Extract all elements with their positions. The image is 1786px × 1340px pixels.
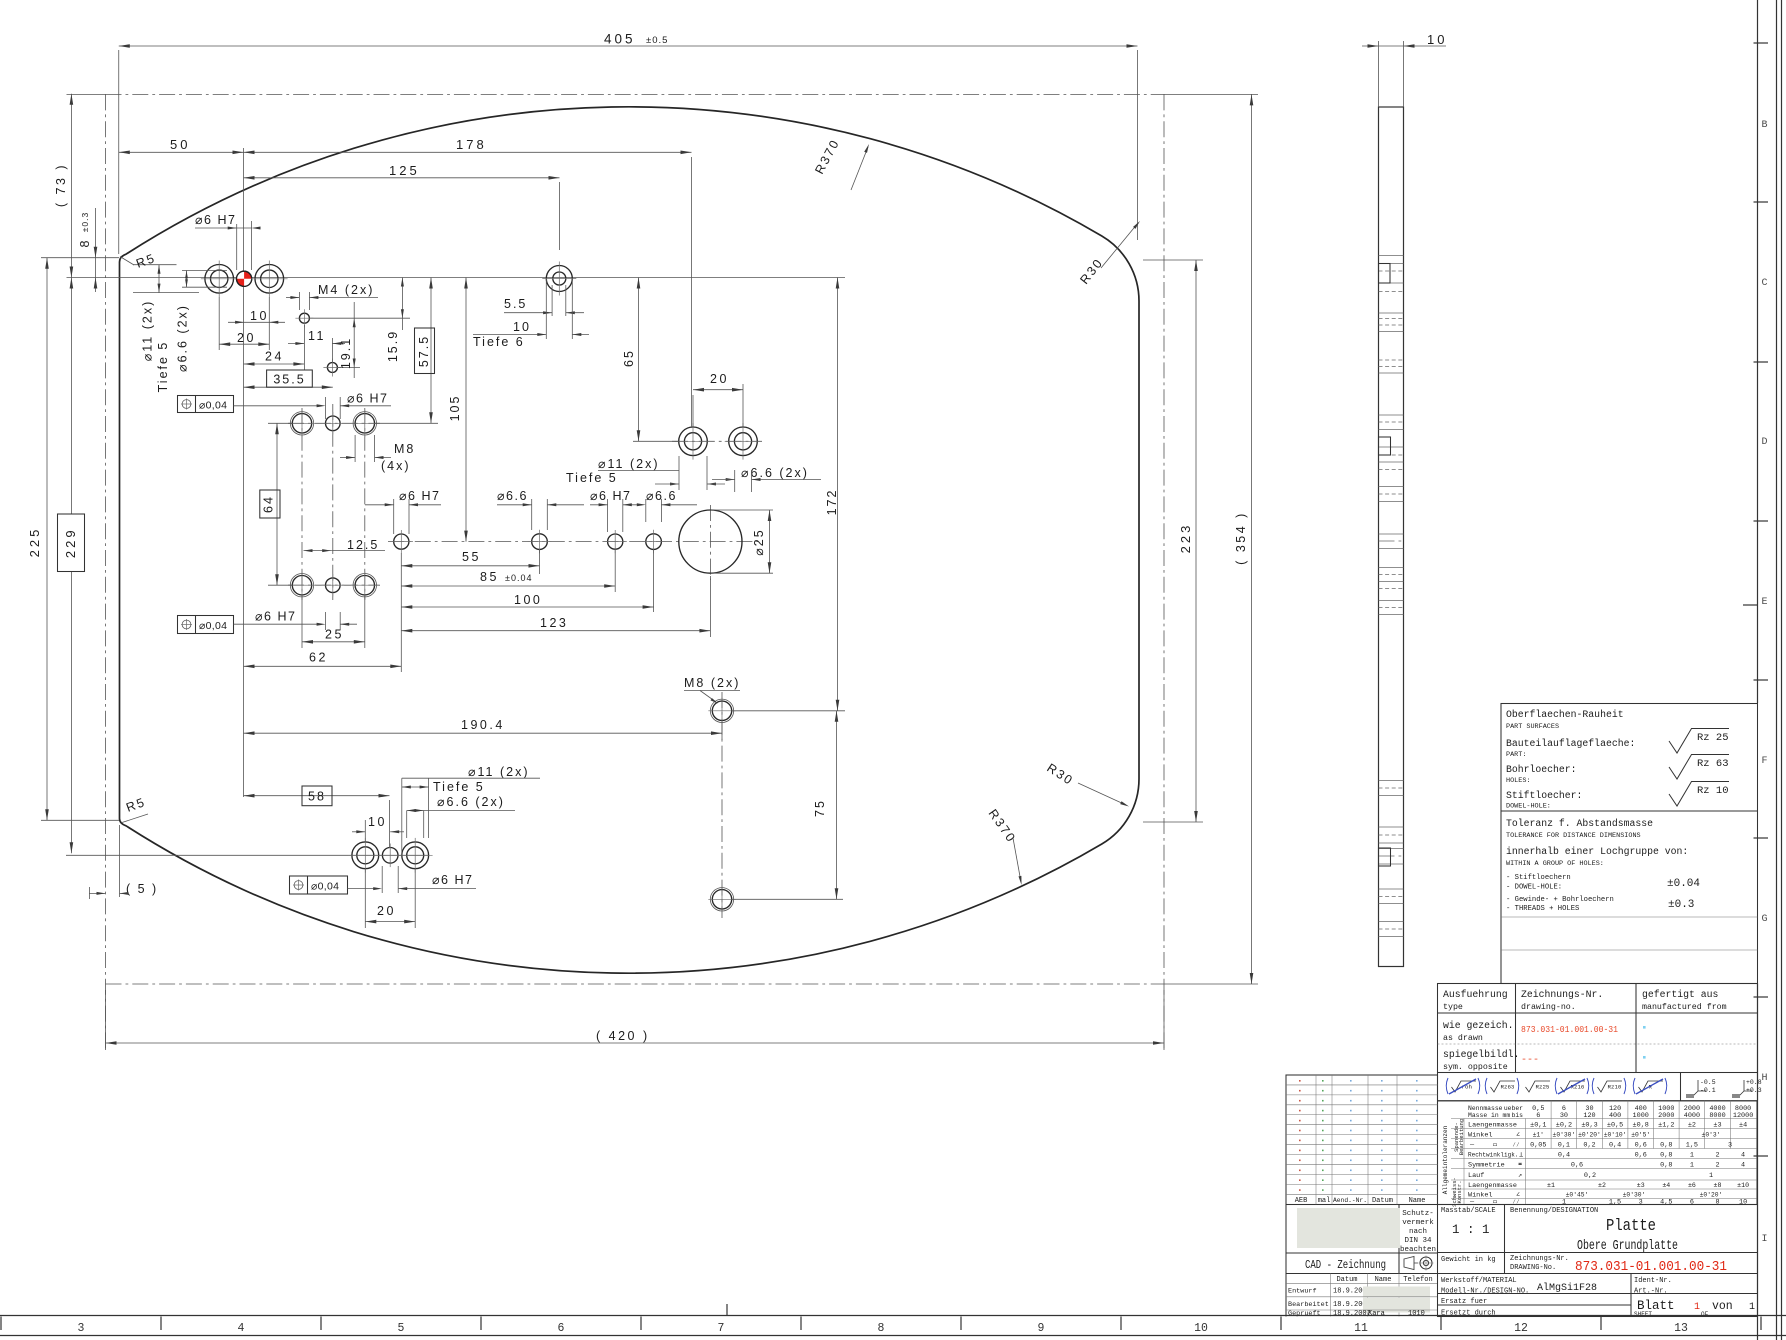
svg-text:1010: 1010	[1408, 1310, 1425, 1318]
datum vertical extension line x=243.5	[243, 148, 245, 797]
svg-text:±2: ±2	[1688, 1122, 1696, 1130]
svg-text:⌀11 (2x): ⌀11 (2x)	[141, 300, 155, 362]
svg-text:Datum: Datum	[1336, 1276, 1357, 1284]
svg-text:6: 6	[1536, 1112, 1540, 1120]
svg-text:Tiefe 5: Tiefe 5	[433, 780, 485, 794]
svg-text:0,8: 0,8	[1660, 1152, 1672, 1160]
dim 25 M8 group	[301, 596, 303, 648]
svg-text:30: 30	[1560, 1112, 1568, 1120]
svg-text:±8: ±8	[1714, 1182, 1722, 1189]
svg-text:M8: M8	[394, 442, 415, 456]
svg-text:11: 11	[1354, 1322, 1368, 1335]
svg-text:0,6: 0,6	[1635, 1142, 1647, 1150]
svg-text:1: 1	[1709, 1172, 1713, 1180]
svg-text:DOWEL-HOLE:: DOWEL-HOLE:	[1506, 803, 1551, 811]
svg-text:190.4: 190.4	[461, 718, 505, 732]
svg-text:±10: ±10	[1737, 1182, 1749, 1189]
svg-text:Rz 10: Rz 10	[1697, 785, 1729, 797]
svg-text:Rz16: Rz16	[1571, 1084, 1585, 1091]
legend symbol Rz16	[1561, 1081, 1586, 1092]
svg-text:- Stiftloechern: - Stiftloechern	[1506, 874, 1571, 882]
dim 225 left height	[41, 819, 119, 821]
svg-text:⌀25: ⌀25	[752, 528, 766, 555]
dim 125	[559, 182, 561, 250]
svg-text:bis: bis	[1511, 1112, 1523, 1119]
svg-text:223: 223	[1178, 523, 1193, 554]
dim 229 boxed	[70, 278, 72, 515]
svg-text:AEB: AEB	[1295, 1197, 1308, 1205]
svg-text:19.1: 19.1	[339, 337, 353, 369]
svg-text:C: C	[1761, 278, 1767, 289]
svg-text:±4: ±4	[1662, 1182, 1670, 1189]
dim 64 boxed rotated	[268, 422, 293, 424]
svg-text:⌀6 H7: ⌀6 H7	[399, 489, 440, 503]
svg-text:7: 7	[718, 1322, 725, 1335]
svg-text:HOLES:: HOLES:	[1506, 777, 1530, 785]
svg-text:4,5: 4,5	[1660, 1199, 1672, 1207]
dim 190.4	[721, 722, 723, 740]
svg-text:⌀0,04: ⌀0,04	[199, 400, 227, 412]
svg-text:Art.-Nr.: Art.-Nr.	[1634, 1288, 1668, 1296]
svg-text:nach: nach	[1409, 1228, 1427, 1236]
svg-text:Ausfuehrung: Ausfuehrung	[1443, 989, 1508, 1000]
svg-text:13: 13	[1674, 1322, 1688, 1335]
dim 24	[303, 325, 305, 370]
svg-text:±0,1: ±0,1	[1530, 1122, 1546, 1130]
svg-text:10: 10	[250, 309, 269, 323]
svg-text:Gewicht in kg: Gewicht in kg	[1441, 1256, 1496, 1264]
svg-text:400: 400	[1609, 1112, 1621, 1120]
svg-text:Modell-Nr./DESIGN-NO.: Modell-Nr./DESIGN-NO.	[1441, 1288, 1529, 1296]
tapped hole M4 first	[299, 313, 309, 323]
svg-text:18.9.2007: 18.9.2007	[1333, 1310, 1371, 1318]
svg-text:Rz25: Rz25	[1536, 1084, 1550, 1091]
legend symbol R	[1639, 1081, 1664, 1092]
svg-text:873.031-01.001.00-31: 873.031-01.001.00-31	[1521, 1024, 1618, 1035]
title block Ausfuehrung table	[1438, 984, 1758, 1073]
legend symbol Rz63	[1491, 1081, 1516, 1092]
roughness symbol Rz 63	[1669, 755, 1729, 780]
svg-text:229: 229	[63, 527, 78, 558]
centerline M8 pair bottom dash-dot	[721, 692, 723, 918]
svg-text:⌀6 H7: ⌀6 H7	[255, 610, 296, 624]
callout D6H7 M8 group bottom leader	[234, 623, 318, 625]
dim 20 bottom	[364, 869, 366, 928]
svg-text:1: 1	[1690, 1152, 1694, 1160]
svg-text:Rz 25: Rz 25	[1697, 732, 1729, 744]
svg-text:DIN 34: DIN 34	[1404, 1237, 1432, 1245]
svg-text:±1: ±1	[1547, 1182, 1555, 1189]
mid row hole D6.6	[532, 534, 548, 550]
svg-text:65: 65	[622, 349, 636, 367]
svg-text:Stiftloecher:: Stiftloecher:	[1506, 790, 1582, 801]
svg-text:±3: ±3	[1713, 1122, 1721, 1130]
centerlines M8 group columns dash-dot	[301, 408, 303, 600]
svg-text:- Gewinde- + Bohrloechern: - Gewinde- + Bohrloechern	[1506, 896, 1614, 904]
svg-text:873.031-01.001.00-31: 873.031-01.001.00-31	[1575, 1260, 1727, 1275]
svg-text:I: I	[1761, 1234, 1767, 1245]
svg-text:±0'20': ±0'20'	[1578, 1132, 1601, 1139]
centerlines M8 group rows dash-dot	[288, 422, 380, 424]
svg-text:0,4: 0,4	[1609, 1142, 1621, 1150]
svg-text:∕∕: ∕∕	[1512, 1142, 1520, 1149]
svg-text:±0,5: ±0,5	[1607, 1122, 1623, 1130]
svg-text:12: 12	[1514, 1322, 1528, 1335]
svg-text:0,8: 0,8	[1660, 1142, 1672, 1150]
dim 20 top row	[218, 297, 220, 350]
dowel holes D6H7 in M8 group	[326, 416, 341, 431]
svg-text:Konstr.: Konstr.	[1456, 1180, 1463, 1203]
roughness symbol Rz 10	[1669, 782, 1729, 807]
bottom dowel hole D6H7	[382, 848, 398, 864]
svg-text:sym. opposite: sym. opposite	[1443, 1062, 1508, 1072]
svg-text:3: 3	[1639, 1199, 1643, 1207]
svg-text:±3: ±3	[1637, 1182, 1645, 1189]
svg-text:Name: Name	[1409, 1197, 1426, 1205]
callout D6H7 bottom dowel leader	[348, 888, 375, 890]
svg-text:85: 85	[480, 570, 499, 584]
svg-text:-0.1: -0.1	[1700, 1087, 1716, 1094]
svg-text:11: 11	[308, 329, 326, 343]
svg-text:±2: ±2	[1598, 1182, 1606, 1189]
svg-text:Bearbeitung: Bearbeitung	[1458, 1119, 1465, 1155]
counterbore hole top-left 2 D11/D6.6	[255, 265, 284, 294]
general tolerance table	[1438, 1101, 1758, 1205]
svg-text:innerhalb einer Lochgruppe von: innerhalb einer Lochgruppe von:	[1506, 846, 1688, 857]
svg-text:Obere Grundplatte: Obere Grundplatte	[1577, 1239, 1678, 1254]
svg-text:OF: OF	[1701, 1311, 1709, 1318]
side view strip thickness 10	[1379, 107, 1404, 967]
svg-text:Allgemeintoleranzen: Allgemeintoleranzen	[1442, 1125, 1449, 1194]
dim 58 boxed	[389, 800, 391, 848]
tapped hole M8 pair bottom	[712, 890, 731, 909]
svg-text:6: 6	[1690, 1199, 1694, 1207]
plate outline front view R370/R30/R5	[120, 107, 1140, 973]
svg-text:Ident-Nr.: Ident-Nr.	[1634, 1277, 1672, 1285]
svg-text:TOLERANCE FOR DISTANCE DIMENSI: TOLERANCE FOR DISTANCE DIMENSIONS	[1506, 832, 1641, 840]
dim (73)	[67, 93, 106, 95]
centerline counterbore pair 11 dash-dot	[672, 440, 762, 442]
tapped holes M8 4x group	[292, 414, 311, 433]
svg-text:Benennung/DESIGNATION: Benennung/DESIGNATION	[1510, 1207, 1598, 1215]
svg-text:2: 2	[1715, 1162, 1719, 1170]
svg-text:±0'20': ±0'20'	[1700, 1192, 1723, 1199]
svg-text:Toleranz f. Abstandsmasse: Toleranz f. Abstandsmasse	[1506, 818, 1653, 829]
svg-text:1 : 1: 1 : 1	[1452, 1223, 1490, 1237]
svg-text:gefertigt aus: gefertigt aus	[1642, 989, 1719, 1000]
svg-text:Bauteilauflageflaeche:: Bauteilauflageflaeche:	[1506, 738, 1635, 749]
svg-text:CAD - Zeichnung: CAD - Zeichnung	[1305, 1259, 1386, 1272]
svg-text:Ersatz fuer: Ersatz fuer	[1441, 1298, 1487, 1306]
svg-text:1: 1	[1749, 1302, 1755, 1313]
datum dowel hole D6H7 red	[237, 271, 252, 286]
svg-text:20: 20	[710, 372, 729, 386]
svg-text:1,5: 1,5	[1686, 1142, 1698, 1150]
frame position tolerance 2	[178, 616, 234, 634]
svg-text:6: 6	[558, 1322, 565, 1335]
svg-text:Ersetzt durch: Ersetzt durch	[1441, 1310, 1496, 1318]
dim 178	[691, 157, 693, 427]
svg-text:10: 10	[513, 320, 531, 334]
svg-text:3: 3	[78, 1322, 85, 1335]
svg-text:⌀0,04: ⌀0,04	[311, 881, 339, 893]
dim 15.9 rotated	[360, 317, 410, 319]
tapped hole M8 pair top	[712, 701, 731, 720]
svg-text:0,2: 0,2	[1584, 1172, 1596, 1180]
callout D6H7 M8 group top leader	[234, 405, 318, 407]
schutzvermerk cell	[1285, 1205, 1287, 1317]
svg-text:Platte: Platte	[1606, 1217, 1656, 1236]
roughness symbol Rz 25	[1669, 729, 1729, 754]
names and dates rows	[1330, 1274, 1332, 1317]
svg-text:25: 25	[325, 628, 344, 642]
svg-text:24: 24	[265, 350, 284, 364]
centerline bottom cb group	[66, 854, 429, 856]
svg-text:Laengenmasse: Laengenmasse	[1468, 1182, 1517, 1190]
dim 20 counterbore pair	[692, 395, 694, 427]
svg-text:10: 10	[1739, 1199, 1747, 1207]
svg-text:62: 62	[309, 651, 328, 665]
legend symbol roh	[1452, 1081, 1477, 1092]
dim 57.5 boxed rotated	[375, 422, 438, 424]
svg-text:⌀11 (2x): ⌀11 (2x)	[598, 457, 660, 471]
revision table with dots	[1286, 1075, 1438, 1205]
svg-text:±0,3: ±0,3	[1581, 1122, 1597, 1130]
svg-text:Zeichnungs-Nr.: Zeichnungs-Nr.	[1510, 1255, 1569, 1263]
svg-text:Symmetrie: Symmetrie	[1468, 1162, 1505, 1170]
svg-text:Zeichnungs-Nr.: Zeichnungs-Nr.	[1521, 989, 1603, 1000]
svg-text:⌀6 H7: ⌀6 H7	[590, 489, 631, 503]
svg-text:Rz63: Rz63	[1501, 1084, 1515, 1091]
dim (354) blank height	[1164, 93, 1258, 95]
svg-text:±1': ±1'	[1533, 1132, 1544, 1139]
svg-text:0,1: 0,1	[1558, 1142, 1570, 1150]
svg-text:8: 8	[1715, 1199, 1719, 1207]
svg-text:PART:: PART:	[1506, 751, 1526, 759]
side view section lines	[1379, 255, 1404, 257]
svg-text:120: 120	[1583, 1112, 1595, 1120]
sheet border bottom band	[0, 1315, 1786, 1317]
svg-text:±4: ±4	[1739, 1122, 1747, 1130]
svg-text:≖: ≖	[1518, 1161, 1522, 1169]
svg-text:±0.3: ±0.3	[80, 212, 90, 232]
svg-text:2: 2	[1715, 1152, 1719, 1160]
svg-text:15.9: 15.9	[386, 330, 400, 362]
dim (420) blank width	[105, 990, 107, 1050]
svg-text:1,5: 1,5	[1609, 1199, 1621, 1207]
svg-text:10: 10	[1194, 1322, 1208, 1335]
svg-text:B: B	[1761, 120, 1767, 131]
svg-text:⌀6.6 (2x): ⌀6.6 (2x)	[176, 304, 190, 372]
svg-text:PART SURFACES: PART SURFACES	[1506, 723, 1559, 731]
svg-text:∠: ∠	[1516, 1132, 1520, 1140]
svg-text:↗: ↗	[1518, 1172, 1522, 1180]
dim 35.5 boxed	[244, 386, 333, 388]
svg-text:±0'10': ±0'10'	[1604, 1132, 1627, 1139]
svg-text:Kara: Kara	[1368, 1310, 1385, 1318]
svg-text:0,6: 0,6	[1571, 1162, 1583, 1170]
svg-text:±0'45': ±0'45'	[1566, 1192, 1589, 1199]
dim 123	[709, 576, 711, 637]
svg-text:±1,2: ±1,2	[1658, 1122, 1674, 1130]
svg-text:E: E	[1761, 597, 1767, 608]
svg-text:±0.3: ±0.3	[1668, 899, 1694, 911]
counterbore pair D11/D6.6 left	[679, 427, 708, 456]
svg-text:±0.5: ±0.5	[646, 35, 668, 46]
dim 19.1 rotated	[309, 317, 360, 319]
svg-text:von: von	[1712, 1300, 1733, 1313]
svg-text:type: type	[1443, 1003, 1463, 1012]
svg-text:Rechtwinkligk.: Rechtwinkligk.	[1468, 1152, 1518, 1159]
dim 10 top row	[268, 297, 270, 350]
svg-text:drawing-no.: drawing-no.	[1521, 1002, 1576, 1012]
svg-text:Lauf: Lauf	[1468, 1172, 1484, 1180]
sheet centering mark bottom	[726, 1304, 728, 1316]
svg-text:2000: 2000	[1658, 1112, 1674, 1120]
mid row hole D6H7 left	[394, 534, 409, 549]
svg-text:AlMgSi1F28: AlMgSi1F28	[1537, 1282, 1597, 1294]
svg-text:⊥: ⊥	[1519, 1152, 1523, 1160]
svg-text:▭: ▭	[1493, 1199, 1497, 1207]
svg-text:Telefon: Telefon	[1403, 1276, 1432, 1284]
svg-text:Masse in mm: Masse in mm	[1468, 1112, 1510, 1119]
svg-text:±0'30': ±0'30'	[1623, 1192, 1646, 1199]
svg-text:DRAWING-No.: DRAWING-No.	[1510, 1264, 1556, 1272]
svg-text:-0.5: -0.5	[1700, 1079, 1716, 1086]
svg-text:5.5: 5.5	[504, 297, 527, 311]
svg-text:10: 10	[368, 815, 387, 829]
svg-text:( 354 ): ( 354 )	[1234, 511, 1248, 565]
sheet border right band	[1757, 0, 1759, 703]
svg-text:Schutz-: Schutz-	[1402, 1210, 1434, 1218]
svg-text:---: ---	[1521, 1055, 1539, 1066]
svg-text:1: 1	[1694, 1302, 1700, 1313]
dim 50	[119, 151, 244, 153]
dim 85 +-0.04	[614, 549, 616, 592]
svg-text:8000: 8000	[1709, 1112, 1725, 1120]
svg-text:405: 405	[604, 32, 636, 47]
svg-text:±0,2: ±0,2	[1556, 1122, 1572, 1130]
svg-text:Tiefe 6: Tiefe 6	[473, 335, 525, 349]
svg-text:100: 100	[514, 593, 542, 607]
legend symbol Rz10	[1598, 1081, 1623, 1092]
mid row hole D6.6 right	[646, 534, 662, 550]
raw blank outline dash-dot box 420x354	[106, 93, 1165, 95]
svg-text:Rz 63: Rz 63	[1697, 758, 1729, 770]
svg-text:D: D	[1761, 437, 1767, 448]
svg-text:0,05: 0,05	[1530, 1142, 1546, 1150]
svg-text:⌀6 H7: ⌀6 H7	[195, 213, 236, 227]
svg-text:⌀6.6 (2x): ⌀6.6 (2x)	[437, 795, 505, 809]
svg-text:±0,8: ±0,8	[1633, 1122, 1649, 1130]
svg-text:Name: Name	[1375, 1276, 1392, 1284]
svg-text:⌀0,04: ⌀0,04	[199, 620, 227, 632]
svg-text:123: 123	[540, 616, 568, 630]
dim 223 right height	[1143, 259, 1203, 261]
svg-text:0,4: 0,4	[1558, 1152, 1570, 1160]
svg-text:Rz10: Rz10	[1608, 1084, 1622, 1091]
title area main fields	[1438, 1205, 1758, 1317]
svg-text:+0.3: +0.3	[1746, 1087, 1762, 1094]
svg-text:⌀6 H7: ⌀6 H7	[432, 873, 473, 887]
svg-text:178: 178	[456, 137, 487, 152]
svg-text:Nennmasse: Nennmasse	[1468, 1105, 1503, 1112]
svg-text:⌀11 (2x): ⌀11 (2x)	[468, 765, 530, 779]
dim D11 vertical ticks	[133, 264, 177, 266]
svg-text:Winkel: Winkel	[1468, 1132, 1492, 1140]
svg-text:10: 10	[1427, 32, 1447, 47]
svg-text:- THREADS + HOLES: - THREADS + HOLES	[1506, 905, 1579, 913]
svg-text:▭: ▭	[1493, 1142, 1497, 1150]
svg-text:8: 8	[878, 1322, 885, 1335]
dim D25 rotated	[710, 509, 773, 511]
svg-text:⌀6 H7: ⌀6 H7	[347, 392, 388, 406]
dim 100	[653, 549, 655, 612]
svg-text:M4 (2x): M4 (2x)	[318, 283, 374, 297]
projection symbol icon	[1404, 1257, 1414, 1270]
svg-text:125: 125	[389, 163, 420, 178]
svg-text:±0'30': ±0'30'	[1553, 1132, 1576, 1139]
svg-text:50: 50	[170, 137, 190, 152]
svg-text:Geprueft: Geprueft	[1288, 1310, 1321, 1318]
centerline big hole vertical dash-dot	[709, 505, 711, 580]
svg-text:4: 4	[238, 1322, 245, 1335]
svg-text:mal: mal	[1318, 1197, 1331, 1205]
svg-text:12.5: 12.5	[347, 538, 379, 552]
svg-text:0,8: 0,8	[1660, 1162, 1672, 1170]
svg-text:105: 105	[448, 395, 462, 422]
dim 105 rotated	[465, 278, 467, 542]
svg-text:55: 55	[462, 550, 481, 564]
svg-text:20: 20	[237, 331, 256, 345]
svg-text:±6: ±6	[1688, 1182, 1696, 1189]
svg-text:( 420 ): ( 420 )	[596, 1029, 650, 1043]
svg-text:Tiefe 5: Tiefe 5	[156, 341, 170, 393]
svg-text:spiegelbildl.: spiegelbildl.	[1443, 1049, 1519, 1060]
sheet centering mark right	[1743, 604, 1758, 606]
svg-text:Bohrloecher:: Bohrloecher:	[1506, 764, 1577, 775]
svg-text:+0.8: +0.8	[1746, 1079, 1762, 1086]
svg-text:3: 3	[1728, 1142, 1732, 1150]
legend chamfer symbols	[1692, 1080, 1706, 1097]
svg-text:Werkstoff/MATERIAL: Werkstoff/MATERIAL	[1441, 1277, 1517, 1285]
centerline mid hole row dash-dot	[388, 541, 758, 543]
svg-text:5: 5	[398, 1322, 405, 1335]
svg-text:Oberflaechen-Rauheit: Oberflaechen-Rauheit	[1506, 709, 1624, 720]
svg-text:ueber: ueber	[1504, 1105, 1523, 1112]
svg-text:(4x): (4x)	[381, 459, 411, 473]
tapped hole M4 second	[327, 363, 337, 373]
svg-text:SHEET: SHEET	[1634, 1311, 1652, 1318]
bottom counterbore hole right D11/D6.6	[402, 842, 429, 869]
svg-text:Bearbeitet: Bearbeitet	[1288, 1301, 1329, 1309]
frame position tolerance 1	[178, 396, 234, 413]
legend symbol Rz25	[1526, 1081, 1551, 1092]
svg-text:75: 75	[813, 799, 827, 817]
svg-text:1: 1	[1562, 1199, 1566, 1207]
dim 65 rotated	[633, 440, 679, 442]
dim 55	[400, 553, 402, 672]
dim D6.6 vertical ticks	[182, 270, 227, 272]
frame position tolerance 3	[290, 876, 348, 894]
svg-text:±0.04: ±0.04	[505, 573, 532, 583]
roughness legend strip	[1437, 1073, 1439, 1101]
counterbore hole D5.5/D10 Tiefe6	[546, 266, 572, 292]
svg-text:vermerk: vermerk	[1402, 1219, 1434, 1227]
svg-text:58: 58	[308, 790, 326, 804]
svg-text:Masstab/SCALE: Masstab/SCALE	[1441, 1207, 1496, 1215]
dim 172 rotated	[731, 710, 845, 712]
